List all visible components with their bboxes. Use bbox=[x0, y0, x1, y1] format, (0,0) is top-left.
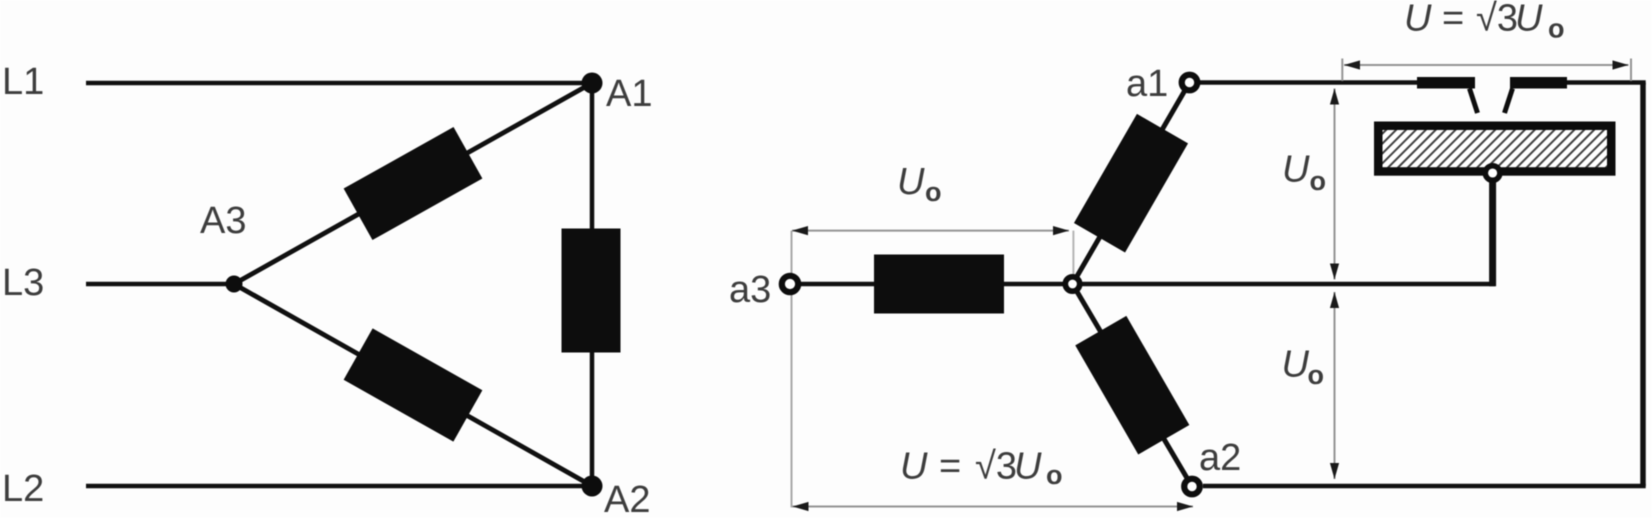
svg-text:o: o bbox=[1548, 14, 1565, 44]
dimension U top left tick bbox=[1341, 59, 1343, 82]
svg-text:L3: L3 bbox=[2, 262, 44, 304]
wire right tap bar to right corner bbox=[1510, 80, 1646, 85]
dimension Uo right lower line bbox=[1334, 292, 1336, 479]
label Uo right upper bbox=[1282, 149, 1326, 197]
tap resistor body (hatched box) bbox=[1374, 122, 1616, 176]
dimension Uo right lower down arrow bbox=[1330, 463, 1339, 479]
wire L2 to node A2 bbox=[86, 484, 592, 489]
star point bbox=[1065, 277, 1079, 291]
wire a2 to right corner bbox=[1203, 484, 1646, 489]
wire L1 to node A1 bbox=[86, 81, 592, 86]
wire A3 to A1 diagonal bbox=[234, 83, 592, 284]
svg-text:U: U bbox=[1404, 0, 1432, 40]
node A3 bbox=[226, 276, 243, 293]
svg-text:U: U bbox=[1014, 446, 1042, 488]
svg-text:A2: A2 bbox=[604, 479, 650, 518]
svg-text:o: o bbox=[1046, 460, 1063, 490]
dimension U top right tick bbox=[1630, 59, 1632, 82]
wire A1 to A2 vertical bbox=[590, 83, 595, 486]
node A1 bbox=[582, 73, 603, 94]
dimension Uo right upper down arrow bbox=[1330, 264, 1339, 280]
svg-text:L2: L2 bbox=[2, 468, 44, 510]
svg-text:U: U bbox=[1515, 0, 1543, 40]
wire a3 to star point bbox=[790, 282, 1073, 287]
winding a3 (horizontal) bbox=[874, 255, 1004, 314]
winding A1-A2 (delta right) bbox=[562, 229, 621, 353]
winding A3-A2 (delta lower) bbox=[344, 328, 483, 441]
dimension U bottom line bbox=[793, 506, 1194, 508]
dimension Uo right upper line bbox=[1334, 89, 1336, 280]
svg-text:a3: a3 bbox=[729, 269, 771, 311]
dimension Uo right lower up arrow bbox=[1330, 292, 1339, 308]
label U = sqrt3 Uo bottom bbox=[900, 446, 1063, 491]
svg-text:√3: √3 bbox=[975, 446, 1017, 488]
svg-text:U: U bbox=[1282, 344, 1310, 386]
label Uo horizontal bbox=[897, 161, 942, 207]
wiper terminal circle bbox=[1485, 166, 1500, 181]
svg-text:A1: A1 bbox=[606, 73, 652, 115]
label U = sqrt3 Uo top bbox=[1404, 0, 1565, 44]
dimension Uo horizontal left arrow bbox=[792, 226, 808, 235]
dimension Uo horizontal line bbox=[792, 230, 1069, 232]
dimension U bottom right arrow bbox=[1177, 502, 1193, 511]
svg-text:U: U bbox=[897, 161, 925, 203]
terminal a2 bbox=[1184, 479, 1200, 495]
terminal a1 bbox=[1182, 75, 1198, 91]
label Uo right lower bbox=[1282, 344, 1325, 391]
svg-text:=: = bbox=[939, 446, 961, 488]
extension line above star point bbox=[1072, 231, 1074, 284]
tap contact tick right bbox=[1505, 89, 1513, 114]
svg-text:L1: L1 bbox=[2, 61, 44, 103]
dimension U top right arrow bbox=[1613, 60, 1629, 69]
svg-text:o: o bbox=[1310, 166, 1327, 196]
svg-text:a1: a1 bbox=[1126, 63, 1168, 105]
wire A3 to A2 diagonal bbox=[234, 284, 592, 486]
svg-text:U: U bbox=[1282, 149, 1310, 191]
tap contact bar left bbox=[1417, 77, 1475, 89]
svg-text:√3: √3 bbox=[1476, 0, 1518, 40]
svg-text:a2: a2 bbox=[1199, 437, 1241, 479]
wiper wire vertical bbox=[1489, 178, 1496, 286]
svg-text:o: o bbox=[925, 177, 942, 207]
tap contact bar right bbox=[1510, 77, 1567, 89]
dimension Uo horizontal right arrow bbox=[1053, 226, 1069, 235]
svg-text:o: o bbox=[1308, 360, 1325, 390]
winding a1 branch bbox=[1074, 114, 1188, 253]
dimension U top left arrow bbox=[1344, 60, 1360, 69]
tap contact tick left bbox=[1470, 89, 1478, 114]
wire star point to a2 bbox=[1073, 284, 1193, 487]
dimension Uo right upper up arrow bbox=[1330, 89, 1339, 105]
winding A3-A1 (delta upper) bbox=[344, 127, 483, 240]
dimension U top line bbox=[1344, 64, 1629, 66]
wire star point to wiper junction bbox=[1073, 282, 1495, 287]
node A2 bbox=[582, 476, 603, 497]
winding a2 branch bbox=[1075, 316, 1189, 455]
wire L3 to node A3 bbox=[86, 282, 234, 287]
dimension U bottom left arrow bbox=[793, 502, 809, 511]
wire a1 to left tap bar bbox=[1190, 80, 1476, 85]
svg-text:A3: A3 bbox=[200, 200, 246, 242]
svg-text:=: = bbox=[1442, 0, 1464, 40]
terminal a3 bbox=[782, 276, 798, 292]
wire right vertical bbox=[1640, 83, 1646, 487]
svg-text:U: U bbox=[900, 446, 928, 488]
extension line below/above a3 terminal bbox=[791, 231, 793, 508]
wire star point to a1 bbox=[1073, 83, 1190, 285]
